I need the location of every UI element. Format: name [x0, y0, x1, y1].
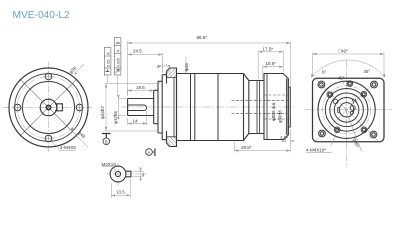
svg-text:φ46: φ46 [77, 130, 86, 139]
svg-text:φ12h6: φ12h6 [113, 111, 118, 124]
flange inner line [173, 78, 175, 137]
dim 18.5 [263, 65, 283, 79]
FCF1 perpendicular symbol [106, 69, 110, 71]
clamp slot [352, 99, 356, 104]
svg-text:B: B [116, 41, 121, 44]
svg-text:18.5*: 18.5* [266, 61, 277, 66]
FCF perpendicularity frame [104, 48, 111, 76]
clamp screw head [350, 111, 353, 114]
centerline horizontal [107, 173, 146, 175]
svg-text:A: A [106, 52, 111, 55]
corner hole TR [371, 81, 378, 88]
key profile [55, 104, 62, 111]
svg-text:24.5: 24.5 [133, 49, 142, 54]
svg-text:φ46: φ46 [184, 63, 189, 71]
svg-text:29.5*: 29.5* [241, 145, 252, 150]
bolt hole left [14, 104, 21, 111]
svg-text:A: A [116, 49, 121, 52]
centerline vertical [346, 60, 348, 165]
dim 4 key width [132, 167, 144, 181]
motor hole upper-left [327, 92, 333, 98]
clamp hub circle [330, 93, 364, 127]
tap hole circle [115, 171, 120, 176]
diagonal centerline [314, 78, 380, 143]
svg-text:4-M4X8: 4-M4X8 [60, 145, 76, 150]
flange step lines [167, 78, 177, 137]
dim 19.5 [128, 89, 154, 96]
body joint line [217, 74, 219, 141]
centerline vertical [117, 163, 119, 188]
motor flange block [264, 74, 288, 140]
clamp screw [350, 106, 355, 111]
dim 17.5 [258, 50, 283, 79]
svg-text:19.5: 19.5 [136, 85, 145, 90]
svg-text:□42*: □42* [339, 49, 349, 54]
flange outer circle [9, 68, 88, 147]
svg-text:A: A [148, 150, 151, 155]
bolt hole top [45, 73, 52, 80]
bolt circle rear [323, 86, 371, 134]
center tap hole [46, 105, 50, 109]
square flange [313, 78, 385, 142]
svg-text:4-M4X10*: 4-M4X10* [306, 148, 326, 153]
dia 12 dim vertical [119, 95, 127, 119]
pilot circle [23, 82, 75, 134]
hidden bore lines [232, 100, 291, 113]
corner hole BL [319, 130, 326, 137]
diagonal centerline 135 [20, 79, 77, 136]
shaft shoulder collar [154, 90, 158, 123]
corner hole TL [318, 81, 325, 88]
pilot ring [288, 87, 290, 127]
svg-text:13.5: 13.5 [116, 190, 125, 195]
dim 14 [128, 111, 147, 125]
neck section [249, 81, 264, 134]
dim square 42 [313, 53, 385, 77]
flange inner line [266, 74, 268, 140]
bolt hole right [76, 104, 83, 111]
FCF2 leader [117, 75, 119, 97]
motor face inner line [285, 79, 287, 136]
leader dia 56 [75, 64, 85, 74]
body ring line 2 [194, 74, 196, 141]
svg-text:0.025: 0.025 [116, 58, 120, 68]
flange step circle [15, 74, 83, 142]
motor hole upper-right [361, 91, 367, 97]
gearbox body [177, 74, 244, 141]
flange corner hatch bottom [167, 137, 177, 146]
svg-text:0.05: 0.05 [106, 59, 111, 68]
body circle [318, 81, 375, 138]
collar circle [334, 98, 359, 123]
svg-text:B: B [105, 139, 108, 144]
input bore circle [339, 103, 353, 117]
datum B [102, 134, 111, 139]
leader dia 46 [71, 130, 89, 148]
svg-text:φ46*: φ46* [352, 138, 360, 149]
FCF2 runout symbol [116, 69, 119, 72]
FCF runout frame [114, 38, 121, 75]
adapter bore circle [325, 89, 368, 132]
balance hole [333, 99, 338, 104]
bolt hole bottom [45, 135, 52, 142]
motor hole lower-left [334, 127, 340, 133]
bearing boss [158, 81, 162, 133]
hidden bore lines 2 [264, 95, 290, 119]
shaft circle [40, 99, 57, 116]
bore keyway [338, 108, 340, 113]
svg-text:6°: 6° [322, 69, 327, 74]
shaft section circle [110, 166, 126, 182]
svg-text:3.5*: 3.5* [280, 135, 288, 140]
svg-text:14: 14 [133, 118, 139, 123]
svg-text:φ8G6 ⊗⊗: φ8G6 ⊗⊗ [271, 102, 276, 121]
keyway slot [128, 105, 147, 111]
centerline axis [122, 106, 296, 108]
body ring line 1 [190, 74, 192, 141]
svg-text:45°: 45° [338, 76, 345, 81]
svg-text:φ30H8: φ30H8 [278, 110, 283, 123]
svg-text:45°: 45° [364, 69, 371, 74]
dim 13.5 [112, 179, 131, 198]
pilot boss [162, 75, 166, 140]
svg-text:φ34h7: φ34h7 [100, 106, 105, 119]
dim 4 [162, 60, 166, 72]
dim 24.5 [128, 53, 163, 73]
angle arc [311, 60, 385, 78]
body step chamfer [244, 74, 249, 141]
dim 29.5 [235, 130, 291, 153]
svg-text:M4X10: M4X10 [102, 162, 117, 167]
FCF1 leader [107, 75, 109, 83]
dia 46 callout [185, 57, 187, 74]
centerline horizontal [305, 109, 392, 111]
dim 96.5 [128, 42, 291, 96]
hole centermarks [13, 72, 85, 144]
diagonal centerline 45 [20, 79, 77, 136]
flange corner hatch top [167, 69, 177, 77]
leader dia46 rear [345, 107, 362, 151]
neck groove [257, 81, 259, 134]
dia 34 dim vertical [105, 84, 160, 132]
corner hole BR [370, 131, 377, 138]
dim 3.5 [282, 138, 294, 143]
output shaft [128, 99, 154, 116]
datum A [152, 149, 155, 157]
front flange [167, 68, 177, 147]
svg-text:MVE-040-L2: MVE-040-L2 [13, 10, 71, 21]
centerline horizontal [3, 107, 94, 109]
motor hole top [347, 81, 353, 87]
svg-text:4: 4 [142, 172, 145, 177]
svg-text:96.5*: 96.5* [197, 35, 208, 40]
bolt circle dash-dot [18, 77, 80, 139]
motor hole lower-right [361, 127, 367, 133]
key section [125, 171, 130, 177]
leader 4-M4X10 [331, 132, 337, 146]
centerline vertical [48, 62, 50, 153]
svg-text:17.5*: 17.5* [263, 46, 274, 51]
leader 4-M4X8 [51, 141, 60, 150]
